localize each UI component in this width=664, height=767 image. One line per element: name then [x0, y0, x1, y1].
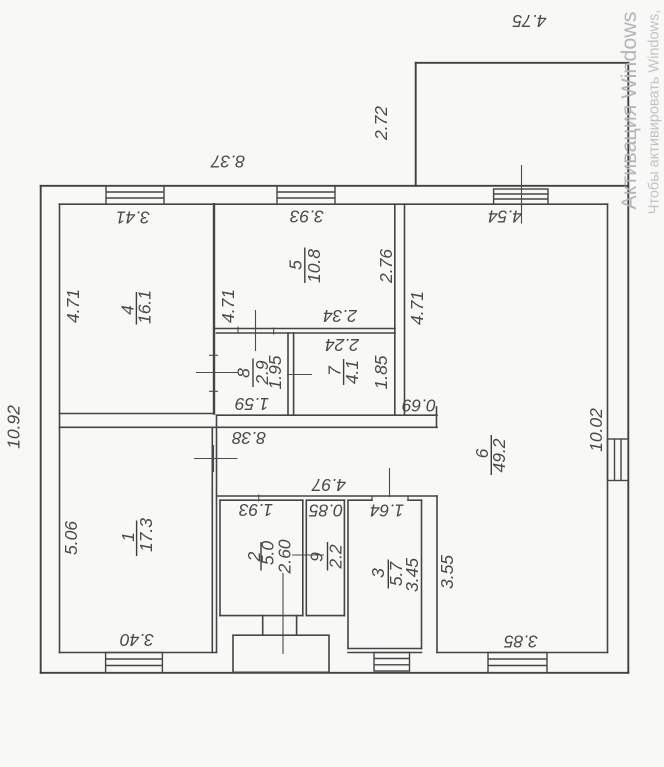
room5 bottom wall line2	[217, 332, 396, 334]
svg-text:0.85: 0.85	[309, 501, 343, 521]
dimension texts rotated -90	[4, 106, 607, 592]
dimension texts rotated 180	[116, 11, 547, 652]
svg-text:3.40: 3.40	[120, 630, 154, 650]
svg-text:3.41: 3.41	[116, 208, 150, 228]
svg-text:5: 5	[286, 260, 306, 270]
wall rooms9|3 line1	[343, 500, 345, 615]
watermark: Activate Windows	[617, 10, 663, 215]
leaders and ticks	[194, 165, 522, 654]
windows	[106, 186, 629, 673]
room3 right wall	[421, 500, 423, 648]
room 4 label	[135, 292, 137, 325]
room9 bottom	[306, 615, 344, 617]
svg-text:2.9: 2.9	[252, 360, 272, 386]
room4 bottom wall	[60, 413, 214, 415]
svg-text:4.97: 4.97	[311, 475, 346, 495]
step bottom room3	[374, 653, 410, 672]
svg-text:16.1: 16.1	[135, 290, 155, 324]
window bottom room6	[488, 653, 547, 673]
window bottom room1	[106, 653, 163, 673]
svg-text:1.93: 1.93	[239, 500, 273, 520]
svg-text:1.64: 1.64	[370, 501, 404, 521]
svg-text:5.0: 5.0	[258, 541, 278, 566]
room 3 label	[387, 560, 389, 589]
svg-text:2.34: 2.34	[323, 306, 358, 326]
svg-text:4.71: 4.71	[63, 289, 83, 323]
room 1 label	[136, 521, 138, 557]
wall outer bottom	[41, 672, 629, 674]
room 5 label	[304, 248, 306, 284]
wall outer top	[41, 185, 629, 187]
svg-text:2.60: 2.60	[275, 539, 295, 574]
window top room5	[277, 186, 335, 204]
leader room7	[287, 374, 312, 376]
room 8 label	[252, 359, 254, 388]
svg-text:4.1: 4.1	[342, 360, 362, 384]
svg-text:1.59: 1.59	[235, 394, 269, 414]
ticks wall rooms4|8	[209, 354, 218, 356]
extension top wall	[416, 62, 629, 64]
room 9 label	[327, 542, 329, 571]
svg-text:4.54: 4.54	[488, 207, 522, 227]
svg-text:17.3: 17.3	[136, 518, 156, 552]
wall inner right	[607, 204, 609, 652]
svg-text:8.37: 8.37	[210, 152, 245, 172]
svg-text:4.75: 4.75	[512, 11, 546, 31]
room6 left wall	[404, 204, 406, 415]
partition rooms8|7 line1	[287, 333, 289, 415]
room 7 label	[343, 359, 345, 385]
svg-text:2.72: 2.72	[371, 106, 391, 141]
room9 box top	[306, 499, 344, 501]
room2 box top	[220, 499, 303, 501]
beam left cap	[216, 415, 218, 427]
wall rooms2|9 line1	[302, 500, 304, 615]
door jambs room3	[371, 496, 373, 500]
svg-text:3.85: 3.85	[504, 632, 538, 652]
svg-text:Активация Windows: Активация Windows	[617, 11, 641, 209]
svg-text:8.38: 8.38	[232, 428, 266, 448]
leader stove	[282, 573, 284, 654]
room6 lower-left wall	[436, 496, 438, 653]
stove box	[233, 635, 329, 672]
room labels: number | area, rotated	[118, 248, 510, 589]
window top room4	[106, 186, 164, 204]
beam right cap with jamb	[436, 407, 438, 427]
window right wall	[608, 439, 629, 481]
corridor south wall line1	[217, 495, 438, 497]
room3 bottom	[348, 648, 422, 650]
room5 bottom wall line1	[214, 328, 395, 330]
wall inner bottom segments	[60, 652, 217, 654]
svg-text:49.2: 49.2	[489, 438, 509, 472]
svg-text:2.2: 2.2	[326, 544, 346, 570]
svg-text:10.92: 10.92	[4, 405, 24, 449]
leader room8	[196, 372, 238, 374]
wall rooms2|9 line2	[305, 500, 307, 615]
corridor beam bottom	[60, 426, 438, 428]
wall outer left	[40, 186, 42, 673]
stove connector left	[262, 616, 264, 636]
window top room6 under extension	[494, 189, 548, 204]
corridor beam top	[217, 414, 438, 416]
partition rooms4|5	[213, 204, 215, 413]
tick room5 bottom	[255, 310, 257, 351]
svg-text:4.71: 4.71	[407, 291, 427, 325]
svg-text:Чтобы активировать Windows,: Чтобы активировать Windows,	[647, 10, 663, 215]
svg-text:3: 3	[368, 568, 388, 578]
wall rooms1|2 line2	[216, 427, 218, 652]
svg-text:5.06: 5.06	[61, 521, 81, 555]
room 6 label	[490, 435, 492, 475]
svg-text:1.85: 1.85	[371, 355, 391, 389]
leader 8.38	[194, 458, 238, 460]
svg-text:2.76: 2.76	[376, 249, 396, 284]
svg-text:10.02: 10.02	[586, 408, 606, 452]
svg-text:3.55: 3.55	[437, 555, 457, 589]
tick corridor south	[258, 495, 260, 502]
leader room3 door	[389, 468, 391, 497]
leader rooms2/9	[292, 554, 324, 556]
wall inner left	[59, 204, 61, 652]
svg-text:1: 1	[118, 532, 138, 542]
leader 4.54	[521, 165, 523, 224]
svg-text:10.8: 10.8	[304, 249, 324, 283]
wall rooms9|3 line2 / room3 left wall	[347, 500, 349, 648]
svg-text:3.93: 3.93	[290, 207, 324, 227]
svg-text:0.69: 0.69	[402, 396, 436, 416]
svg-text:9: 9	[307, 552, 327, 562]
rooms5,7 right wall	[394, 204, 396, 415]
svg-text:5.7: 5.7	[386, 561, 406, 587]
room2 left wall	[219, 500, 221, 615]
svg-text:4.71: 4.71	[218, 289, 238, 323]
svg-text:8: 8	[234, 368, 254, 378]
wall rooms1|2 line1	[211, 427, 213, 652]
extension left wall	[415, 63, 417, 186]
room3 box top with door gap	[348, 499, 372, 501]
partition rooms8|7 line2	[293, 333, 295, 415]
wall outer right	[627, 63, 629, 673]
room 2 label	[260, 542, 262, 571]
room2 bottom	[220, 615, 303, 617]
stove connector right	[296, 616, 298, 636]
wall inner top	[60, 203, 608, 205]
svg-text:2.24: 2.24	[325, 335, 360, 355]
